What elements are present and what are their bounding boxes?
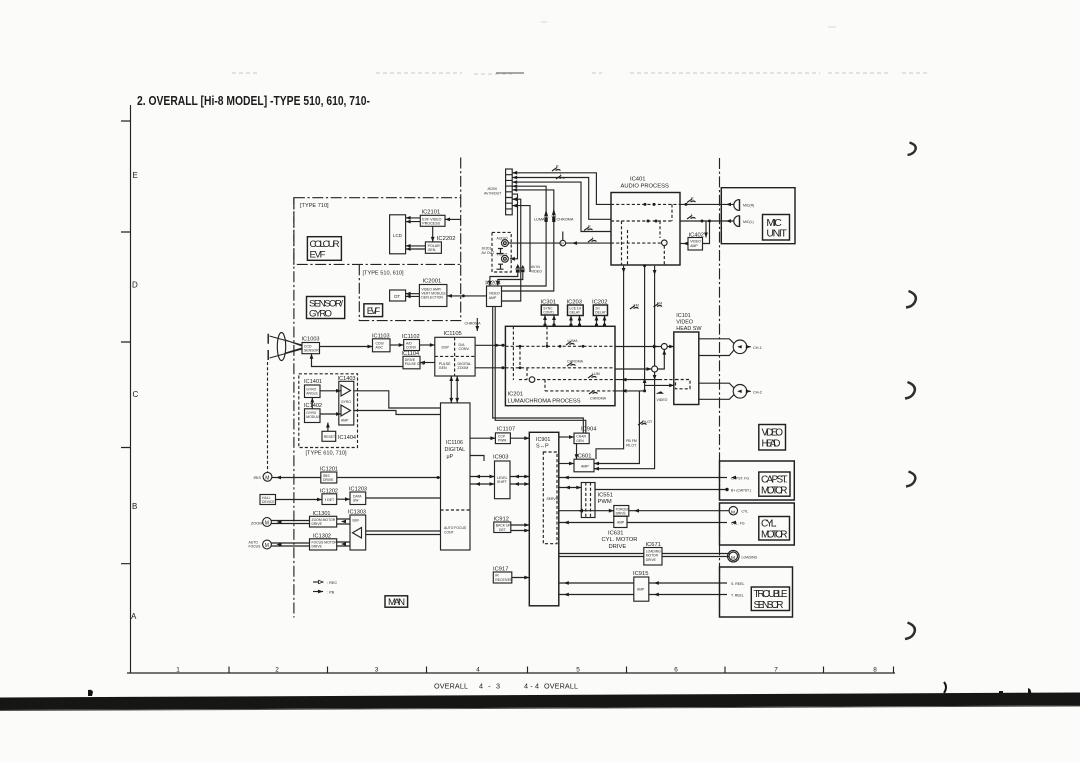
IC1402 gyro module xyxy=(304,403,322,423)
wires IC912 to IC901 xyxy=(511,525,530,531)
svg-text:R: R xyxy=(691,196,694,200)
svg-text:7: 7 xyxy=(774,667,778,674)
IC2101 EVF video process xyxy=(420,209,445,226)
dashed iris line from lens xyxy=(267,362,269,472)
wire into IC2101 from divider xyxy=(445,218,461,220)
TYPE 710 box xyxy=(294,198,461,265)
legend REC xyxy=(313,581,323,583)
wire IC1105 zoom out to IC201 xyxy=(475,367,505,369)
head ch2 xyxy=(733,385,747,399)
wire IC1203 to IC1106 xyxy=(366,497,441,499)
svg-text:MIC(R): MIC(R) xyxy=(743,204,754,208)
gyro dashed box TYPE 610,710 xyxy=(299,374,358,448)
wire IC1106 to IC1107 xyxy=(470,437,495,439)
svg-text:OVERALL: OVERALL xyxy=(434,682,468,691)
svg-text:AMP: AMP xyxy=(637,588,645,592)
svg-text:AUDIO: AUDIO xyxy=(497,237,508,241)
svg-text:DRIVE: DRIVE xyxy=(646,558,657,562)
svg-text:SENSOR: SENSOR xyxy=(304,349,319,353)
svg-text:DRIVE: DRIVE xyxy=(616,512,627,516)
wire IC1201 to IC1106 xyxy=(337,477,441,479)
HALL device xyxy=(260,495,276,505)
svg-text:CONTL: CONTL xyxy=(543,311,554,315)
legend PB xyxy=(313,591,323,593)
svg-text:M: M xyxy=(265,521,269,527)
mic R symbol xyxy=(734,200,739,211)
svg-text:4: 4 xyxy=(476,667,480,674)
svg-text:CHROMA: CHROMA xyxy=(557,218,574,222)
svg-text:DRIVE: DRIVE xyxy=(323,478,334,482)
wire IC401 down pilot xyxy=(596,266,624,459)
bar mark right 2 xyxy=(999,688,1031,695)
IC201 luma/chroma process xyxy=(505,326,615,405)
svg-text:VIDEO: VIDEO xyxy=(497,253,508,257)
svg-text:CONT: CONT xyxy=(444,530,454,534)
svg-text:IC915: IC915 xyxy=(633,571,648,577)
svg-text:ZOOM: ZOOM xyxy=(458,366,469,370)
svg-text:CH-1: CH-1 xyxy=(753,346,762,350)
svg-text:AMP: AMP xyxy=(489,296,497,300)
svg-text:LUMA: LUMA xyxy=(534,218,545,222)
wire IC901 to IC671 xyxy=(559,554,644,557)
svg-text:CYL: CYL xyxy=(742,510,749,514)
LCD box xyxy=(390,215,406,254)
wire IC402 top xyxy=(705,221,707,238)
IC1303 buffer xyxy=(348,510,366,550)
svg-text:DEVICE: DEVICE xyxy=(262,500,275,504)
svg-text:TROUBLE: TROUBLE xyxy=(754,589,788,600)
chroma bold arrow xyxy=(552,209,557,223)
svg-text:S. REEL: S. REEL xyxy=(731,582,744,586)
IC1105 DSP block xyxy=(435,331,475,376)
bar mark right 1 xyxy=(944,682,946,693)
wire s.reel xyxy=(559,582,727,584)
wire IC2101 to LCD xyxy=(406,218,421,222)
svg-text:CAPST. FG: CAPST. FG xyxy=(731,477,749,481)
wire IC1302 to IC1303 xyxy=(337,542,350,546)
svg-text:LUMA: LUMA xyxy=(568,339,579,343)
svg-text:IC2202: IC2202 xyxy=(437,236,456,242)
svg-text:PWM: PWM xyxy=(498,439,506,443)
svg-text:SERVO: SERVO xyxy=(547,497,559,501)
wire IC1202 to IC1203 xyxy=(337,498,350,500)
wire zoom to IC1301 xyxy=(271,521,309,524)
svg-text:IC551: IC551 xyxy=(598,493,613,499)
IC915 amp xyxy=(633,571,649,601)
svg-text:LUM: LUM xyxy=(592,372,600,376)
wires IC203 to IC201 xyxy=(571,316,580,327)
sig label R xyxy=(552,168,561,172)
svg-text:SW: SW xyxy=(353,499,359,503)
svg-text:SHIFT: SHIFT xyxy=(497,480,507,484)
wire pin5 chroma xyxy=(502,190,554,291)
svg-text:FOCUS: FOCUS xyxy=(249,545,262,549)
wire pin8 xyxy=(512,206,530,272)
wire IC1402 to IC1401 xyxy=(311,398,313,409)
IC1301 zoom motor drive xyxy=(310,511,337,527)
TROUBLE SENSOR label xyxy=(751,587,789,611)
sig label R rec xyxy=(584,227,593,231)
bus IC1105 to IC1106 xyxy=(451,376,457,403)
svg-text:AMP: AMP xyxy=(341,419,349,423)
P mix node xyxy=(560,240,566,246)
binding mark 3 xyxy=(905,382,915,399)
wire IC2001 from IC204 xyxy=(447,295,487,297)
svg-text:HEAD SW: HEAD SW xyxy=(676,326,702,332)
svg-text:CONV: CONV xyxy=(406,346,417,350)
wire IC671 to loading motor xyxy=(662,554,730,557)
IC2001 video amp deflection xyxy=(419,279,447,307)
wire IC2101 to IC2202 xyxy=(432,226,434,242)
MIC UNIT label xyxy=(763,215,790,241)
svg-text:CAPST.: CAPST. xyxy=(761,475,788,486)
IC1202 f det xyxy=(320,488,338,504)
luma mix node xyxy=(615,346,661,348)
wire mic L to IC401 xyxy=(680,220,734,222)
svg-text:L: L xyxy=(592,236,594,240)
wires IC903 to IC901 xyxy=(510,477,529,485)
IC402 video amp xyxy=(688,232,704,250)
svg-text:DEFLECTION: DEFLECTION xyxy=(421,296,443,300)
video jack xyxy=(502,255,509,262)
IC1201 iris drive xyxy=(320,467,338,484)
section divider right xyxy=(719,158,721,617)
mic L symbol xyxy=(734,216,739,227)
IC601 audio amp xyxy=(574,453,594,471)
svg-text:HEAD: HEAD xyxy=(762,438,781,449)
wires IC204 down to IC904 xyxy=(493,307,586,434)
svg-text:ANGLE: ANGLE xyxy=(306,392,318,396)
IC101 video head sw xyxy=(674,313,703,405)
svg-text:MODULE: MODULE xyxy=(306,415,321,419)
sig label FM 1 xyxy=(630,306,639,310)
svg-text:FM: FM xyxy=(657,302,662,306)
wire cyl fg to amp xyxy=(627,522,727,524)
svg-text:GYRO: GYRO xyxy=(341,400,351,404)
svg-text:GEN: GEN xyxy=(439,366,447,370)
sig label L xyxy=(556,176,565,180)
wires IC202 to IC201 xyxy=(597,316,605,327)
svg-text:VIDEO: VIDEO xyxy=(762,427,784,438)
chroma mix node xyxy=(615,368,652,370)
svg-text:AMP: AMP xyxy=(581,465,589,469)
wire RESET to IC1402 xyxy=(327,423,329,432)
wire IC402 left xyxy=(680,243,688,245)
svg-text:VIDEO: VIDEO xyxy=(531,269,542,273)
svg-text:IRIS: IRIS xyxy=(254,476,262,480)
svg-text:SENSOR: SENSOR xyxy=(754,600,784,611)
svg-text:P: P xyxy=(561,241,564,246)
wire chroma node up to luma node xyxy=(658,350,665,369)
lens rays xyxy=(270,336,303,358)
svg-text:ZOOM: ZOOM xyxy=(251,521,262,525)
svg-text:LCD: LCD xyxy=(393,233,402,238)
wire IC1105 luma out to IC201 xyxy=(475,344,505,346)
svg-text:L: L xyxy=(691,213,693,217)
SENSOR/GYRO label xyxy=(307,297,345,320)
zoom motor circle xyxy=(263,518,272,527)
wire pin7 xyxy=(502,199,521,301)
svg-text:IC601: IC601 xyxy=(576,453,591,459)
svg-text:R: R xyxy=(556,165,559,169)
wire IC204 top feeds xyxy=(490,272,523,286)
svg-text:IC2001: IC2001 xyxy=(423,279,442,285)
svg-text:AV IN/OUT: AV IN/OUT xyxy=(484,191,502,195)
IC1003 CCD sensor xyxy=(302,337,320,354)
svg-text:JK200: JK200 xyxy=(487,187,497,191)
svg-text:IC1401: IC1401 xyxy=(304,379,322,385)
svg-text:AMP: AMP xyxy=(690,244,698,248)
CYL motor label xyxy=(759,517,790,541)
svg-text:IC101: IC101 xyxy=(676,313,690,319)
svg-text:1: 1 xyxy=(176,667,180,674)
binding mark 2 xyxy=(906,291,916,308)
svg-text:PB FM: PB FM xyxy=(626,439,637,443)
svg-text:IC201: IC201 xyxy=(508,391,523,397)
VIDEO signal marker xyxy=(656,391,665,394)
svg-text:AGC: AGC xyxy=(376,346,384,350)
svg-text:CHROMA: CHROMA xyxy=(465,322,482,326)
sig label PILOT xyxy=(638,422,647,426)
luma bold arrow xyxy=(544,210,549,223)
svg-text:DRIVE: DRIVE xyxy=(312,545,323,549)
svg-text:IC1107: IC1107 xyxy=(497,426,515,432)
sig label L rec xyxy=(588,239,597,243)
sig label CHROM pb xyxy=(589,391,598,395)
svg-text:PILOT: PILOT xyxy=(642,420,653,424)
wire mic R to IC401 xyxy=(680,203,734,205)
svg-text:GYRO: GYRO xyxy=(309,309,332,320)
COLOUR EVF label xyxy=(307,237,341,261)
bottom black bar xyxy=(0,693,1080,711)
svg-text:A: A xyxy=(131,612,137,621)
svg-text:2: 2 xyxy=(275,667,279,674)
svg-text:DELAY: DELAY xyxy=(570,311,581,315)
wire IC904 to IC601 xyxy=(576,444,578,460)
IC904 char gen xyxy=(574,427,597,444)
focus motor circle xyxy=(263,540,272,549)
pb luma row xyxy=(615,379,659,381)
IC301 sync contl xyxy=(541,299,559,315)
IC671 loading motor drive xyxy=(644,542,662,565)
IC1103 CDS/AGC xyxy=(372,333,390,352)
main section left border xyxy=(293,198,295,618)
lens ellipse xyxy=(277,333,285,361)
wire pin6 video out xyxy=(510,194,518,259)
CAPST motor label xyxy=(759,472,790,497)
IC203 1H delay xyxy=(567,299,584,315)
EVF label xyxy=(364,304,383,317)
svg-text:JK201: JK201 xyxy=(482,247,492,251)
wire gyro outputs to IC1106 xyxy=(354,391,441,415)
wire IC901 to IC551 xyxy=(559,487,582,489)
binding mark 4 xyxy=(906,472,915,487)
AV in video bold arrows xyxy=(515,264,520,273)
IC551 PWM xyxy=(581,483,613,518)
svg-text:IC1003: IC1003 xyxy=(302,337,320,343)
svg-text:4-3: 4-3 xyxy=(479,682,500,691)
svg-text:T. REEL: T. REEL xyxy=(731,594,744,598)
sig label LUMA in IC201 xyxy=(566,342,575,346)
svg-text:CHROMA: CHROMA xyxy=(567,360,584,364)
svg-text:OVERALL: OVERALL xyxy=(544,682,578,691)
column numbers xyxy=(176,667,877,674)
svg-text:LUMA/CHROMA PROCESS: LUMA/CHROMA PROCESS xyxy=(508,398,581,404)
svg-text:S↔P: S↔P xyxy=(536,443,549,449)
svg-text:IC1402: IC1402 xyxy=(304,403,322,409)
wire pin2 L to IC401 xyxy=(512,178,611,220)
IC1106 digital uP xyxy=(441,403,471,550)
wire IC401 down video fm xyxy=(654,266,656,366)
wire video fm down to IC601 xyxy=(594,372,655,469)
IC202 2H delay xyxy=(592,299,608,315)
bar end blob left xyxy=(88,690,93,696)
wire IC1103 to IC1102 xyxy=(390,344,404,346)
IC1203 data sw xyxy=(349,487,367,505)
svg-text:DRIVE: DRIVE xyxy=(312,522,323,526)
wire IC1303 to IC1106 xyxy=(366,531,441,535)
svg-text:B: B xyxy=(132,502,137,511)
wire IC1104 to IC1003 xyxy=(312,354,404,367)
wire pin1 R to IC401 xyxy=(512,173,611,205)
cyl motor circle xyxy=(729,507,737,515)
IC1102 A/D conv xyxy=(402,334,420,351)
wire IC901 to IC601 xyxy=(559,463,574,465)
IC901 servo micro xyxy=(529,432,559,606)
wire IC1401 to IC1403 xyxy=(320,390,341,392)
ruler ticks xyxy=(229,667,894,674)
svg-text:6: 6 xyxy=(674,667,678,674)
head ch1 xyxy=(733,340,747,354)
capstan section box xyxy=(720,461,795,500)
svg-text:IC631: IC631 xyxy=(608,531,623,537)
svg-text:DET: DET xyxy=(499,528,506,532)
JK201 AV out dashed box xyxy=(492,232,511,272)
svg-text:: REC: : REC xyxy=(327,581,337,585)
wires IC903 to IC1106 xyxy=(470,477,495,485)
svg-text:AUTO FOCUS: AUTO FOCUS xyxy=(444,526,467,530)
svg-text:IC401: IC401 xyxy=(630,177,645,183)
MIC unit box xyxy=(721,188,795,244)
wire torque to cyl motor xyxy=(629,510,729,512)
svg-text:CH-2: CH-2 xyxy=(753,390,762,394)
svg-text:MAIN: MAIN xyxy=(388,597,405,608)
wire IC903 top bend xyxy=(470,456,484,462)
wire pin3 to IC401 xyxy=(512,182,611,231)
svg-text:CYL. MOTOR: CYL. MOTOR xyxy=(602,537,638,543)
svg-text:IC904: IC904 xyxy=(581,427,597,433)
IC1107 xyxy=(495,426,515,443)
wire IC917 to IC901 xyxy=(512,577,530,579)
svg-text:GEN.: GEN. xyxy=(428,248,437,252)
svg-text:8: 8 xyxy=(873,667,877,674)
svg-text:M: M xyxy=(731,555,735,561)
svg-text:VIDEO: VIDEO xyxy=(657,398,668,402)
audio jack xyxy=(502,240,509,247)
IC903 level shift xyxy=(493,455,510,499)
svg-text:CHROMA: CHROMA xyxy=(590,397,607,401)
svg-text:MIC(L): MIC(L) xyxy=(743,220,754,224)
loading motor circle xyxy=(729,552,737,560)
wire IC1105 to IC1104 xyxy=(420,362,435,364)
wire b+ capstan xyxy=(595,483,727,490)
IC204 video amp xyxy=(485,281,501,307)
left border rule xyxy=(130,105,132,673)
svg-text:IC1106: IC1106 xyxy=(446,440,463,446)
svg-text:AUDIO PROCESS: AUDIO PROCESS xyxy=(621,184,669,190)
svg-text:PROCESS: PROCESS xyxy=(422,222,440,226)
amp box cyl xyxy=(614,516,627,527)
svg-text:D: D xyxy=(132,281,138,290)
RESET box xyxy=(322,431,356,441)
wire pin4 luma xyxy=(502,186,547,286)
svg-text:AMP: AMP xyxy=(617,521,625,525)
sig label CHROMA in IC201 xyxy=(567,363,576,367)
sig label FM 2 xyxy=(654,304,663,308)
MAIN label xyxy=(385,596,408,608)
wire IC901 to IC904 xyxy=(559,436,574,438)
svg-text:VIDEO: VIDEO xyxy=(676,320,693,326)
svg-text:FM: FM xyxy=(634,304,639,308)
svg-text:RECEIVER: RECEIVER xyxy=(495,578,513,582)
svg-text:E: E xyxy=(133,171,138,180)
svg-text:LOADING: LOADING xyxy=(742,555,758,559)
wires IC301 to IC201 xyxy=(545,315,554,326)
IC917 IR receiver xyxy=(493,567,513,583)
svg-text:IC1404: IC1404 xyxy=(338,435,356,441)
svg-text:AV IN: AV IN xyxy=(531,265,540,269)
wire fm audio IC401 to IC101 xyxy=(594,266,674,464)
svg-text:PILOT: PILOT xyxy=(626,443,637,447)
svg-text:IC2101: IC2101 xyxy=(422,209,441,215)
svg-text:DRIVE: DRIVE xyxy=(609,544,627,550)
lens bars xyxy=(267,334,269,360)
svg-text:BUF: BUF xyxy=(353,519,360,523)
CRT box xyxy=(390,290,406,301)
svg-text:PWM: PWM xyxy=(598,499,612,505)
svg-text:CONV.: CONV. xyxy=(459,347,470,351)
svg-text:MOTOR: MOTOR xyxy=(761,530,788,541)
wire IC1107 to IC901 xyxy=(510,437,529,439)
wire amp to IC901 xyxy=(559,522,614,524)
wire capstan fg xyxy=(559,477,727,479)
wire IC2202 to LCD xyxy=(406,246,426,249)
wire IC551 to torque xyxy=(559,510,614,512)
wire t.reel xyxy=(559,594,727,596)
svg-text:R: R xyxy=(588,224,591,228)
wire IC1201 to iris xyxy=(272,477,321,479)
svg-text:C: C xyxy=(133,390,139,399)
svg-text:[TYPE 610, 710]: [TYPE 610, 710] xyxy=(306,451,347,457)
wire audio out line xyxy=(508,242,611,244)
sig label L mic xyxy=(687,216,696,220)
svg-text:L: L xyxy=(560,173,562,177)
bottom ruler xyxy=(127,672,895,674)
wire IC1402 to IC1403 xyxy=(320,413,341,415)
JK200 AV in/out connector xyxy=(484,169,512,215)
wire IC1102 to IC1105 xyxy=(420,344,435,346)
IC401 audio process xyxy=(611,177,680,266)
IC1302 focus motor drive xyxy=(310,533,338,550)
wire IC1003 to IC1103 xyxy=(320,346,373,348)
cyl section box xyxy=(720,503,795,545)
svg-text:IC1102: IC1102 xyxy=(402,334,420,340)
binding mark 5 xyxy=(905,623,915,640)
pb chroma row xyxy=(615,390,645,392)
wire IC2001 to CRT xyxy=(406,294,420,297)
svg-text:DSP: DSP xyxy=(442,345,450,349)
wire focus to IC1302 xyxy=(271,543,309,546)
